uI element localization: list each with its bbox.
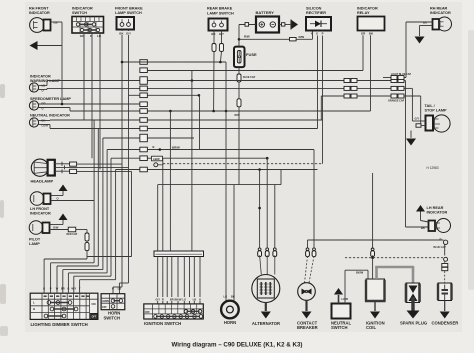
connector at row 95.3 — [140, 93, 148, 98]
tail stop lamp — [415, 104, 451, 132]
LH rear indicator lamp — [421, 206, 451, 233]
label LB/W — [152, 156, 163, 161]
wire breaker points dashed — [345, 257, 443, 259]
ground arrow LH front indicator — [51, 195, 64, 197]
wire dashed points line — [158, 164, 163, 166]
wire row 240 to LH rear cap — [308, 239, 444, 241]
wire row 119 — [147, 119, 322, 121]
wire R/W to rectifier — [239, 38, 290, 40]
wire dimmer switch lead 4 — [62, 270, 64, 293]
wire tail lamp feed 1 — [411, 88, 413, 121]
wire ignition switch lead R — [162, 257, 164, 298]
wire rear brake BK down — [213, 31, 215, 44]
lighting dimmer switch — [30, 293, 98, 319]
wire row 169.5 — [116, 169, 140, 171]
wire rectifier P down — [322, 31, 324, 32]
wire rectifier G down — [317, 31, 319, 32]
wire indicator switch LB down — [99, 33, 101, 38]
high tension lead — [375, 267, 378, 279]
ground arrow LH rear indicator — [420, 212, 422, 221]
wire LH rear feed — [405, 81, 407, 228]
wire front brake G/Y down — [128, 30, 130, 32]
wire pilot lamp down with connectors — [86, 230, 88, 234]
wire dimmer switch lead 7 — [79, 280, 81, 293]
wire LH front indicator O — [51, 200, 95, 202]
wire dimmer switch lead 2 — [50, 263, 52, 293]
wire horn lead BK — [233, 185, 235, 301]
horn — [221, 294, 239, 325]
wire row 128.5 — [147, 128, 317, 130]
ground arrow contact breaker — [305, 300, 307, 311]
wire dimmer switch lead 1 — [43, 259, 45, 293]
wire fuse feed to ignition bar — [158, 184, 281, 186]
wire neutral switch — [344, 270, 346, 303]
battery — [256, 10, 280, 32]
wire ignition switch lead — [189, 257, 191, 298]
wire ignition switch lead BR — [171, 257, 173, 298]
wire ignition riser 2 — [162, 158, 164, 251]
wire headlamp 2 — [55, 166, 129, 168]
wire relay GR — [362, 30, 364, 33]
ignition switch — [144, 304, 204, 319]
neutral indicator lamp — [29, 114, 70, 128]
rear brake lamp switch — [207, 7, 234, 37]
wire row 96 — [321, 95, 344, 97]
ground arrow neutral switch — [338, 295, 340, 304]
alternator bullet connectors — [258, 248, 261, 251]
ground arrow tail lamp — [410, 131, 412, 138]
ground arrow ignition coil — [374, 302, 376, 312]
connector at row 169.5 — [140, 167, 148, 172]
wire pilot lamp O/W — [50, 229, 69, 231]
horn switch — [101, 294, 125, 310]
wire fuse down — [238, 67, 240, 74]
wire ignition coil riser — [372, 173, 374, 249]
ground arrow RH front indicator — [30, 41, 38, 50]
wire contact breaker right lead — [313, 150, 315, 249]
connector at row 149.5 — [140, 147, 148, 152]
wire RH rear indicator — [406, 21, 433, 23]
connector at row 104.2 — [140, 102, 148, 107]
wire ignition switch lead LB — [193, 257, 195, 298]
wire rear brake G/Y down — [221, 31, 223, 44]
node G cap — [443, 240, 447, 244]
wire indicator switch O down — [91, 33, 93, 38]
wire ignition riser 4 — [191, 70, 193, 251]
ground arrow alternator — [265, 303, 267, 312]
scan noise (decorative) — [0, 0, 1, 1]
wire row 111 — [147, 110, 370, 112]
LH front indicator lamp — [30, 192, 51, 216]
silicon rectifier — [306, 7, 331, 36]
connector at row 88.4 — [140, 86, 148, 91]
indicator switch — [72, 17, 104, 34]
connector at row 70.2 — [140, 68, 148, 73]
wire RH rear indicator ground — [420, 25, 433, 27]
ground arrow condenser — [444, 301, 446, 312]
wire alternator lead 3 — [274, 185, 276, 248]
wire horn switch lead G — [112, 287, 114, 294]
wire row 83 — [147, 80, 344, 82]
wire speedometer G — [39, 107, 70, 109]
wire neutral indicator BK — [39, 120, 50, 122]
contact breaker bullets — [306, 248, 309, 251]
indicator warning lamp — [29, 75, 60, 93]
spark plug — [400, 283, 427, 326]
wire ignition switch lead BK/W — [177, 257, 179, 298]
speedometer lamp — [29, 97, 71, 111]
wire row 70.5 — [147, 70, 363, 72]
wire riser short — [199, 95, 201, 149]
front brake lamp switch — [115, 7, 143, 36]
wire horn lead LG — [225, 62, 227, 301]
ground arrow spark plug — [411, 297, 414, 312]
wire speedometer BR — [39, 103, 140, 105]
wire ignition switch lead G/Y — [157, 257, 159, 298]
wire ignition switch lead LG — [183, 257, 185, 298]
connector at row 128.5 — [140, 126, 148, 131]
wire warning lamp LB — [39, 85, 47, 87]
ignition coil — [365, 279, 386, 330]
wire battery positive — [239, 24, 256, 26]
wire dimmer switch lead 6 — [73, 276, 75, 292]
wire row 62 — [122, 61, 226, 63]
connector at row 111 — [140, 109, 148, 114]
wire row 158.2 — [111, 157, 140, 159]
wire neutral indicator LG/R — [39, 124, 50, 126]
connector at row 120 — [140, 118, 148, 123]
wire headlamp 3 — [55, 170, 70, 172]
wire RH front indicator down — [61, 46, 63, 105]
wire row 96 left riser — [320, 96, 322, 120]
wire indicator switch GR down — [83, 33, 85, 38]
wire front brake BK down — [121, 30, 123, 32]
pilot lamp — [29, 221, 50, 246]
condenser wire with connectors — [444, 245, 446, 256]
wire headlamp 1 — [55, 163, 70, 165]
RH rear indicator lamp — [423, 7, 452, 32]
wire RH front indicator LB — [51, 21, 63, 23]
contact breaker — [297, 283, 318, 330]
connector at row 158.2 — [140, 156, 148, 161]
alternator — [252, 275, 280, 327]
wire alternator lead 1 — [259, 170, 261, 249]
wire warning lamp O — [39, 89, 47, 91]
wire dimmer switch lead 3 — [56, 266, 58, 293]
fuse — [234, 47, 257, 68]
wire row 94 — [129, 94, 140, 96]
wire row 138 — [103, 137, 140, 139]
wire tail lamp feed 2 — [420, 96, 422, 126]
neutral switch — [331, 304, 351, 331]
RH front indicator lamp — [29, 7, 58, 33]
wire horn switch lead LB — [118, 283, 120, 294]
connector at row 80.5 — [140, 77, 148, 85]
wire ignition switch lead O — [199, 257, 201, 298]
connector at row 62 — [140, 60, 148, 65]
node battery junction R/W — [238, 38, 241, 41]
ground arrow pilot lamp — [50, 224, 64, 226]
wire ignition switch lead — [166, 257, 168, 298]
wire alternator lead 2 — [266, 158, 268, 248]
svg-text:Wiring diagram – C90 DELUXE (K: Wiring diagram – C90 DELUXE (K1, K2 & K3… — [172, 342, 303, 349]
wire dimmer switch lead 5 — [67, 273, 69, 293]
wire ignition riser 3 — [169, 111, 171, 251]
ground arrow battery — [290, 20, 292, 30]
condenser — [432, 283, 459, 326]
ground arrow RH rear indicator — [415, 37, 425, 44]
connector at row 138 — [140, 134, 148, 142]
wire ignition riser 1 — [157, 185, 159, 251]
indicator relay — [357, 7, 385, 36]
wire battery negative to ground — [279, 24, 291, 26]
wire contact breaker left lead — [307, 240, 309, 248]
wire row 150 — [107, 149, 140, 151]
headlamp — [31, 159, 55, 184]
wire row 88.4 — [300, 87, 344, 89]
ignition switch connector bar — [154, 251, 204, 257]
wire relay BK — [370, 30, 372, 33]
